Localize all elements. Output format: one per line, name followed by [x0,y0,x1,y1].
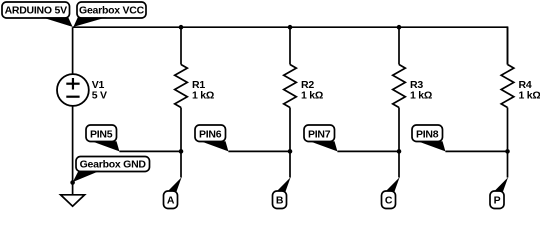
svg-text:5 V: 5 V [92,90,107,102]
junction PIN6 [288,149,293,154]
terminal P [490,177,508,208]
net label Gearbox GND [73,157,150,183]
terminal B [273,177,291,208]
svg-text:1 kΩ: 1 kΩ [301,90,323,102]
junction top R2 [288,25,293,30]
svg-text:1 kΩ: 1 kΩ [519,90,540,102]
wire PIN7 to R3 [337,150,399,152]
terminal A [164,177,182,208]
junction PIN8 [505,149,510,154]
wire top rail [73,26,508,28]
svg-text:A: A [167,195,175,207]
net label PIN7 [304,125,337,151]
junction top R1 [179,25,184,30]
svg-text:ARDUINO 5V: ARDUINO 5V [5,5,68,17]
svg-text:PIN7: PIN7 [308,128,331,140]
voltage source V1 5 V [57,74,107,106]
junction GND [70,180,75,185]
net label PIN8 [412,125,445,151]
junction top R3 [397,25,402,30]
resistor R2 [284,27,323,177]
svg-text:Gearbox GND: Gearbox GND [80,159,147,171]
svg-text:1 kΩ: 1 kΩ [410,90,432,102]
svg-text:Gearbox VCC: Gearbox VCC [79,5,145,17]
svg-text:B: B [276,195,284,207]
junction PIN5 [179,149,184,154]
net label ARDUINO 5V [2,2,73,27]
svg-text:P: P [494,195,501,207]
wire PIN6 to R2 [228,150,290,152]
wire GND stub [72,183,74,195]
svg-text:1 kΩ: 1 kΩ [192,90,214,102]
net label PIN6 [195,125,228,151]
svg-text:PIN8: PIN8 [416,128,439,140]
wire V1 top lead [72,27,74,73]
terminal C [382,177,400,208]
wire PIN8 to R4 [445,150,507,152]
resistor R1 [175,27,214,177]
junction PIN7 [397,149,402,154]
svg-text:C: C [385,195,393,207]
resistor R4 [501,27,540,177]
svg-text:PIN6: PIN6 [199,128,222,140]
net label Gearbox VCC [73,2,146,27]
resistor R3 [393,27,432,177]
svg-text:PIN5: PIN5 [90,128,113,140]
wire right rail drop [507,26,509,64]
wire V1 bottom lead [72,106,74,182]
ground [61,195,85,206]
wire PIN5 to R1 [119,150,181,152]
net label PIN5 [86,125,119,151]
